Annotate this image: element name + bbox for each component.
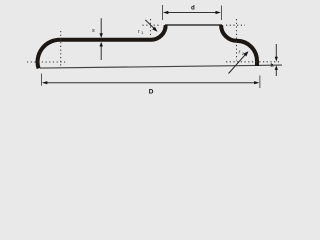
svg-text:d: d xyxy=(191,4,195,11)
svg-text:s: s xyxy=(92,28,95,34)
svg-text:h: h xyxy=(271,63,274,69)
svg-text:2: 2 xyxy=(242,52,244,56)
svg-text:D: D xyxy=(149,88,154,95)
svg-text:1: 1 xyxy=(141,31,143,35)
